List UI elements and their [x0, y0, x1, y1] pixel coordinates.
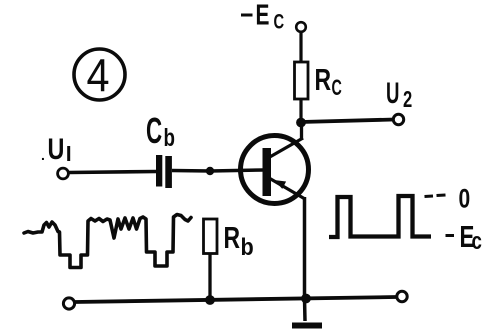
svg-text:C: C — [332, 75, 342, 100]
svg-text:c: c — [472, 228, 482, 255]
wire collector node to U2 — [301, 120, 394, 123]
svg-text:4: 4 — [87, 50, 110, 102]
label U1 — [41, 132, 70, 165]
label Cb — [146, 112, 175, 152]
wire supply to Rc — [299, 32, 302, 63]
svg-text:C: C — [274, 10, 285, 33]
label -Ec level — [446, 219, 482, 254]
svg-text:U: U — [48, 132, 65, 165]
wire Rc to collector node — [299, 99, 302, 124]
svg-text:R: R — [315, 62, 332, 97]
transistor VT1 — [241, 136, 309, 204]
svg-text:E: E — [256, 0, 270, 31]
svg-text:R: R — [224, 220, 241, 255]
svg-text:2: 2 — [403, 87, 412, 112]
resistor Rb — [204, 219, 218, 254]
terminal U2 — [393, 114, 403, 124]
wire capacitor to base node — [172, 169, 211, 173]
wire bottom rail — [75, 297, 396, 302]
node collector junction — [296, 118, 306, 128]
wire collector vertical — [300, 122, 303, 140]
terminal U1 — [58, 168, 69, 179]
svg-text:b: b — [164, 123, 175, 151]
ground — [292, 323, 322, 329]
label U2 — [386, 77, 412, 113]
resistor Rc — [295, 62, 309, 99]
node rail emitter — [301, 294, 311, 304]
wire base node to transistor — [210, 170, 263, 171]
terminal bottom right — [397, 291, 407, 301]
label 0 level — [425, 184, 471, 214]
node rail Rb — [205, 295, 215, 305]
input waveform — [24, 215, 191, 268]
wire emitter to ground — [303, 298, 307, 321]
svg-text:.: . — [41, 147, 45, 163]
terminal bottom left — [63, 298, 74, 309]
label Rc — [315, 62, 342, 100]
capacitor Cb — [156, 155, 172, 188]
svg-text:0: 0 — [459, 184, 471, 214]
node base junction — [206, 167, 214, 175]
label -Ec supply — [241, 0, 284, 33]
svg-text:C: C — [146, 112, 162, 152]
svg-text:U: U — [386, 77, 399, 111]
terminal -Ec — [296, 22, 306, 32]
wire input to capacitor — [69, 172, 156, 173]
label Rb — [224, 220, 254, 261]
svg-text:b: b — [241, 233, 254, 260]
figure number badge 4 — [74, 49, 125, 102]
wire Rb to rail — [208, 253, 211, 301]
output waveform — [329, 196, 431, 237]
wire emitter down — [303, 197, 307, 298]
